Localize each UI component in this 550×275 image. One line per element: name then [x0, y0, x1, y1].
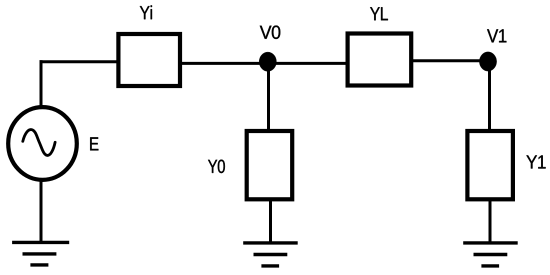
admittance box Y0 — [247, 131, 293, 199]
admittance box Y1 — [467, 131, 513, 199]
label V1 — [487, 29, 506, 42]
node V1 — [479, 52, 496, 71]
sine wave inside source — [23, 130, 55, 156]
label YL — [370, 7, 388, 20]
label Y0 — [208, 160, 225, 173]
wire: Y1 to ground — [489, 200, 492, 242]
wire: YL to node V1 — [413, 59, 488, 62]
wire: Y0 to ground — [269, 200, 272, 242]
admittance box YL — [348, 34, 412, 86]
AC voltage source E — [8, 107, 77, 180]
wire: Yi to node V0 — [182, 62, 268, 65]
wire: V1 down to Y1 — [488, 62, 491, 130]
ground under Y1 — [463, 243, 518, 266]
wire: source riser to top rail corner — [40, 60, 43, 107]
label E — [90, 137, 98, 150]
admittance box Yi — [118, 34, 180, 86]
label Y1 — [526, 155, 545, 168]
label Yi — [140, 5, 152, 19]
wire: top rail left segment to Yi — [40, 60, 118, 63]
label V0 — [260, 26, 281, 39]
node V0 — [259, 52, 276, 71]
ground under Y0 — [243, 243, 298, 266]
wire: source to ground — [40, 180, 43, 242]
ground under source — [12, 242, 69, 265]
wire: V0 down to Y0 — [267, 62, 270, 130]
wire: node V0 to YL — [268, 62, 347, 65]
